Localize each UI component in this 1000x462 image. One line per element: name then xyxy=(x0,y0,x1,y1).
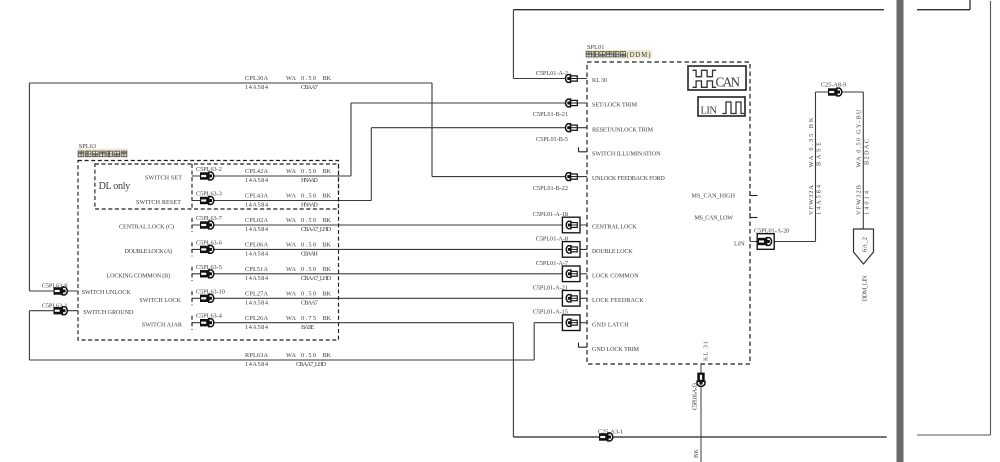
svg-text:C25-A3-1: C25-A3-1 xyxy=(598,428,623,435)
svg-text:C5PL01-A-2: C5PL01-A-2 xyxy=(536,70,568,77)
svg-text:14A584: 14A584 xyxy=(815,184,822,215)
svg-text:WA: WA xyxy=(286,75,296,82)
svg-text:BK: BK xyxy=(323,168,332,175)
svg-text:14A584: 14A584 xyxy=(245,361,269,368)
svg-text:DL only: DL only xyxy=(99,181,131,192)
svg-text:CBAA7_LHD: CBAA7_LHD xyxy=(301,226,332,233)
svg-text:0.50: 0.50 xyxy=(301,193,316,200)
svg-text:DOUBLE LOCK: DOUBLE LOCK xyxy=(592,249,633,255)
svg-text:CPL27A: CPL27A xyxy=(245,291,268,298)
svg-text:14A584: 14A584 xyxy=(245,202,269,209)
svg-text:CBAA7_LHD: CBAA7_LHD xyxy=(296,361,327,368)
svg-text:LIN: LIN xyxy=(701,105,718,116)
svg-text:0.50: 0.50 xyxy=(301,352,316,359)
svg-text:C5PL01-B-22: C5PL01-B-22 xyxy=(533,185,568,192)
svg-text:WA 0.50 GY-BU: WA 0.50 GY-BU xyxy=(856,109,863,167)
svg-text:SWITCH UNLOCK: SWITCH UNLOCK xyxy=(82,290,132,296)
svg-text:KL 30: KL 30 xyxy=(592,78,607,84)
svg-text:RPL63A: RPL63A xyxy=(245,352,268,359)
svg-text:14A584: 14A584 xyxy=(245,177,269,184)
svg-text:C5PL63-10: C5PL63-10 xyxy=(196,288,225,295)
svg-text:SWITCH ILLUMINATION: SWITCH ILLUMINATION xyxy=(592,151,661,157)
svg-text:C5PL01-B-21: C5PL01-B-21 xyxy=(533,111,568,118)
svg-text:BK: BK xyxy=(323,217,332,224)
svg-text:14A584: 14A584 xyxy=(245,226,269,233)
svg-text:C5PL63-6: C5PL63-6 xyxy=(196,239,222,246)
svg-text:CPL42A: CPL42A xyxy=(245,168,268,175)
svg-text:0.50: 0.50 xyxy=(301,291,316,298)
svg-text:BK: BK xyxy=(323,75,332,82)
svg-text:DDM_LIN: DDM_LIN xyxy=(862,275,869,301)
svg-text:GND LATCH: GND LATCH xyxy=(592,322,629,328)
svg-text:LOCK COMMON: LOCK COMMON xyxy=(592,273,639,279)
svg-text:BK: BK xyxy=(323,193,332,200)
svg-text:0.50: 0.50 xyxy=(301,242,316,249)
svg-text:14A584: 14A584 xyxy=(245,84,269,91)
svg-text:SET/LOCK TRIM: SET/LOCK TRIM xyxy=(592,103,638,109)
svg-text:CAN: CAN xyxy=(716,75,741,90)
svg-text:CPL06A: CPL06A xyxy=(245,242,268,249)
svg-text:CBAA7_LHD: CBAA7_LHD xyxy=(301,275,332,282)
svg-text:C5PL01-A-18: C5PL01-A-18 xyxy=(533,211,568,218)
svg-text:C5PL63-3: C5PL63-3 xyxy=(196,191,222,198)
svg-text:C5PL01-A-20: C5PL01-A-20 xyxy=(754,228,789,235)
svg-text:CBAA7: CBAA7 xyxy=(301,84,318,91)
svg-text:6A_2: 6A_2 xyxy=(861,237,868,252)
svg-text:BK: BK xyxy=(323,352,332,359)
svg-text:C5PL01-A-8: C5PL01-A-8 xyxy=(536,235,568,242)
svg-text:RESET/UNLOCK TRIM: RESET/UNLOCK TRIM xyxy=(592,127,654,133)
svg-text:SWITCH AJAR: SWITCH AJAR xyxy=(142,322,183,328)
svg-text:C5PL01-A-21: C5PL01-A-21 xyxy=(533,284,568,291)
svg-text:C5PL63-9: C5PL63-9 xyxy=(42,283,68,290)
svg-text:0.75: 0.75 xyxy=(301,315,316,322)
svg-text:14A584: 14A584 xyxy=(245,324,269,331)
svg-text:MS_CAN_LOW: MS_CAN_LOW xyxy=(695,216,734,222)
svg-text:SWITCH RESET: SWITCH RESET xyxy=(136,200,181,206)
svg-text:C5PL01-B-5: C5PL01-B-5 xyxy=(536,136,568,143)
svg-text:CBAAH: CBAAH xyxy=(301,251,318,258)
svg-text:UNLOCK FEEDBACK FORD: UNLOCK FEEDBACK FORD xyxy=(592,176,665,182)
svg-text:WA: WA xyxy=(286,193,296,200)
svg-text:WA: WA xyxy=(286,291,296,298)
svg-text:GND LOCK TRIM: GND LOCK TRIM xyxy=(592,347,640,353)
svg-text:CENTRAL LOCK: CENTRAL LOCK xyxy=(592,225,637,231)
svg-text:C5PL63-1: C5PL63-1 xyxy=(42,302,68,309)
svg-text:BK: BK xyxy=(323,266,332,273)
svg-text:SPL63: SPL63 xyxy=(79,143,96,150)
svg-text:B2DAC: B2DAC xyxy=(864,139,871,165)
svg-text:SWITCH LOCK: SWITCH LOCK xyxy=(139,298,181,304)
svg-text:C5PL01-A-15: C5PL01-A-15 xyxy=(533,309,568,316)
svg-text:VFW32B: VFW32B xyxy=(856,185,863,215)
svg-text:WA: WA xyxy=(286,315,296,322)
svg-text:HNAAD: HNAAD xyxy=(301,177,318,184)
svg-text:DOUBLE LOCK (A): DOUBLE LOCK (A) xyxy=(125,248,173,255)
svg-text:SPL01: SPL01 xyxy=(587,44,604,51)
svg-text:C25-A8-9: C25-A8-9 xyxy=(821,82,846,89)
svg-text:MS_CAN_HIGH: MS_CAN_HIGH xyxy=(692,193,736,199)
svg-text:CBAA7: CBAA7 xyxy=(301,299,318,306)
svg-text:SWITCH GROUND: SWITCH GROUND xyxy=(83,310,134,316)
svg-text:LOCK FEEDBACK: LOCK FEEDBACK xyxy=(592,298,644,304)
svg-text:BK: BK xyxy=(323,315,332,322)
svg-text:CENTRAL LOCK (C): CENTRAL LOCK (C) xyxy=(119,224,174,231)
svg-text:BK: BK xyxy=(323,242,332,249)
svg-text:CPL43A: CPL43A xyxy=(245,193,268,200)
svg-text:C5PL01-A-13: C5PL01-A-13 xyxy=(692,383,699,410)
svg-text:0.50: 0.50 xyxy=(301,168,316,175)
svg-text:BASE: BASE xyxy=(815,142,822,166)
svg-text:0.50: 0.50 xyxy=(301,75,316,82)
svg-text:VFW32A: VFW32A xyxy=(808,185,815,215)
svg-text:14A584: 14A584 xyxy=(245,251,269,258)
svg-text:LOCKING COMMON (B): LOCKING COMMON (B) xyxy=(107,272,170,279)
svg-text:BASE: BASE xyxy=(301,324,315,331)
svg-text:CPL26A: CPL26A xyxy=(245,315,268,322)
svg-text:KL 31: KL 31 xyxy=(703,341,710,361)
svg-text:C5PL63-7: C5PL63-7 xyxy=(196,215,222,222)
svg-text:WA: WA xyxy=(286,352,296,359)
svg-text:LIN: LIN xyxy=(734,240,745,247)
svg-text:14014: 14014 xyxy=(864,190,871,215)
svg-text:WA: WA xyxy=(286,266,296,273)
svg-text:C5PL63-4: C5PL63-4 xyxy=(196,313,222,320)
svg-text:C5PL63-2: C5PL63-2 xyxy=(196,166,222,173)
svg-text:0.50: 0.50 xyxy=(301,217,316,224)
svg-text:14A584: 14A584 xyxy=(245,299,269,306)
svg-text:WA 0.35 BK: WA 0.35 BK xyxy=(808,117,815,167)
svg-text:CPL30A: CPL30A xyxy=(245,75,268,82)
svg-text:C5PL63-5: C5PL63-5 xyxy=(196,264,222,271)
svg-text:(DDM): (DDM) xyxy=(627,52,651,59)
svg-text:14A584: 14A584 xyxy=(245,275,269,282)
svg-text:CPL02A: CPL02A xyxy=(245,217,268,224)
svg-text:BK: BK xyxy=(323,291,332,298)
svg-text:WA: WA xyxy=(286,168,296,175)
svg-text:SWITCH SET: SWITCH SET xyxy=(145,176,182,182)
svg-text:BK: BK xyxy=(693,449,700,458)
svg-text:WA: WA xyxy=(286,242,296,249)
svg-text:C5PL01-A-7: C5PL01-A-7 xyxy=(536,260,568,267)
svg-text:0.50: 0.50 xyxy=(301,266,316,273)
svg-text:HNAAD: HNAAD xyxy=(301,202,318,209)
svg-text:WA: WA xyxy=(286,217,296,224)
svg-text:CPL51A: CPL51A xyxy=(245,266,268,273)
